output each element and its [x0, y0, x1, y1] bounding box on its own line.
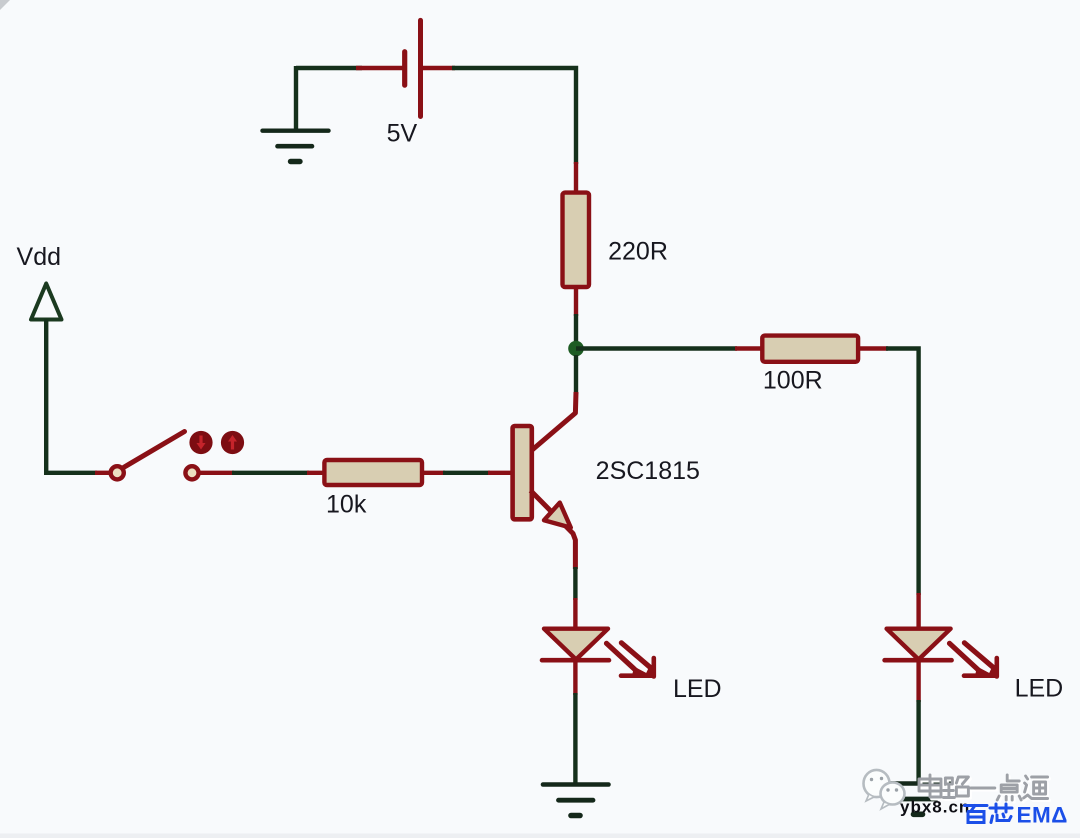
LED D2 emission arrows [950, 643, 999, 677]
wire switch to 10k [232, 471, 309, 475]
pin stub 100R right [859, 346, 888, 350]
wire node to 100R [576, 346, 737, 350]
pin stub LED1 cathode [573, 660, 577, 695]
ground GND3 bottom-right [886, 784, 952, 815]
switch SW1 left terminal [111, 466, 124, 479]
pin stub battery right [421, 66, 456, 70]
svg-text:EMΔ: EMΔ [1017, 803, 1068, 828]
switch SW1 lever [124, 432, 185, 468]
LED D2 cathode bar [885, 658, 952, 663]
transistor Q1 emitter arrow [544, 503, 571, 528]
pin stub base [488, 471, 513, 475]
LED D1 cathode bar [542, 658, 609, 663]
pin stub 220R bottom [574, 287, 578, 316]
wire battery-left to ground corner [296, 66, 362, 70]
node junction collector [568, 341, 584, 357]
switch SW1 right terminal [185, 466, 198, 479]
wire 220R to node [574, 314, 578, 348]
wire 100R to right branch corner and down [886, 349, 919, 596]
svg-text:Vdd: Vdd [17, 243, 61, 271]
power symbol Vdd arrow [31, 284, 62, 320]
svg-text:2SC1815: 2SC1815 [596, 457, 700, 485]
resistor R2 100R [762, 336, 858, 362]
LED D2 triangle [887, 629, 951, 660]
battery BAT1 long plate [418, 20, 423, 116]
ground GND2 bottom-left [543, 785, 609, 816]
svg-text:5V: 5V [387, 119, 418, 147]
transistor Q1 collector lead [532, 392, 577, 451]
resistor R1 220R [563, 193, 590, 287]
pin stub switch right [198, 471, 234, 475]
pin stub battery left [356, 66, 404, 70]
pin stub switch left [95, 471, 110, 475]
wire battery right to top corner and down [452, 68, 576, 164]
switch actuator dot up [221, 431, 244, 454]
LED D1 triangle [544, 629, 608, 660]
pin stub LED2 anode [916, 593, 920, 630]
ground stem top-left [294, 66, 298, 130]
svg-text:ybx8.cn: ybx8.cn [900, 798, 970, 817]
wire emitter to LED1 [573, 567, 577, 600]
svg-text:100R: 100R [763, 366, 823, 394]
transistor Q1 base bar [513, 426, 532, 519]
pin stub 10k left [307, 471, 326, 475]
wire LED1 to ground [573, 693, 577, 784]
resistor R3 10k [324, 460, 422, 485]
pin stub 10k right [422, 471, 445, 475]
wire node down to collector [574, 355, 578, 394]
pin stub 220R top [574, 162, 578, 194]
pin stub LED2 cathode [916, 660, 920, 702]
svg-text:10k: 10k [326, 491, 367, 519]
char xin (core) [990, 804, 1012, 823]
LED D1 emission arrows [607, 643, 656, 677]
char bai (hundred) [965, 806, 988, 823]
svg-text:LED: LED [1015, 675, 1064, 703]
pin stub LED1 anode [573, 598, 577, 630]
pin stub 100R left [735, 346, 763, 350]
ground GND1 top-left [263, 131, 329, 162]
bottom edge strip [0, 834, 1080, 838]
watermark wechat icon [864, 770, 905, 809]
switch actuator dot down [189, 431, 212, 454]
top-left corner notch [0, 0, 10, 10]
wire 10k to base [443, 471, 490, 475]
transistor Q1 emitter lead [531, 491, 576, 570]
battery BAT1 short plate [402, 52, 407, 85]
wire LED2 to ground [916, 700, 920, 783]
wire Vdd trunk [46, 320, 97, 473]
svg-text:220R: 220R [608, 238, 668, 266]
watermark bai-xin (blue) [965, 804, 1013, 823]
svg-text:LED: LED [673, 675, 722, 703]
